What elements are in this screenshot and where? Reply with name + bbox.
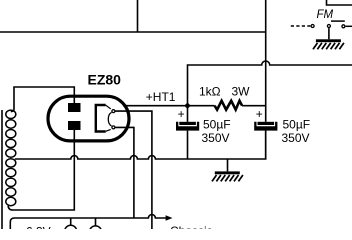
svg-text:1kΩ: 1kΩ (199, 85, 221, 99)
tube U1 EZ80 envelope (48, 96, 129, 141)
ground FM bar (316, 39, 341, 42)
wire 6.3V heater line with hop (10, 215, 166, 229)
resistor R1 leads (188, 105, 266, 107)
wire HT2 rail with hop (188, 61, 352, 106)
svg-text:350V: 350V (282, 131, 310, 145)
capacitor C2 negative tray (254, 122, 277, 131)
lamp terminal circle 1 (65, 225, 77, 237)
wire stub top-left (137, 0, 139, 32)
ground FM hatching (313, 43, 344, 49)
ground FM stub (328, 28, 330, 39)
capacitor C1 negative tray (176, 122, 199, 131)
ground main stub (227, 159, 229, 171)
svg-text:+: + (256, 107, 263, 121)
ground main hatching (212, 175, 243, 181)
wire top right corner (327, 0, 352, 5)
FM switch contact 1 (311, 25, 314, 28)
wire HT vertical bus (265, 0, 267, 122)
heater pin circle bottom (112, 126, 115, 129)
wire anode A2 to transformer bottom (8, 130, 74, 210)
svg-text:50µF: 50µF (203, 117, 231, 131)
heater pin circle top (112, 110, 115, 113)
capacitor C1 positive plate (179, 122, 196, 125)
FM switch contact 3 (342, 25, 345, 28)
cathode stub top (106, 105, 111, 109)
ground main bar (215, 171, 240, 174)
lamp terminal stub 1 (70, 218, 72, 225)
svg-text:+: + (178, 107, 185, 121)
heater filament arc (108, 112, 111, 126)
anode plate A2 (68, 121, 81, 130)
wire heater top pin down right side (115, 111, 152, 229)
cathode sleeve bracket (96, 105, 106, 132)
svg-text:50µF: 50µF (283, 117, 311, 131)
FM switch blade (331, 20, 345, 22)
transformer core line (1, 110, 3, 229)
arrow to heaters (166, 215, 173, 220)
lamp terminal circle 2 (89, 226, 101, 238)
capacitor C2 lead bottom (265, 131, 267, 159)
cathode stub bottom (106, 129, 111, 131)
svg-text:6.3V: 6.3V (26, 225, 51, 230)
svg-text:350V: 350V (202, 131, 230, 145)
wire bottom rail with hops (15, 131, 266, 159)
wire top HV rail (0, 31, 266, 33)
svg-text:+HT1: +HT1 (146, 90, 176, 104)
svg-text:FM: FM (317, 9, 334, 21)
wire anode A1 to transformer top (11, 87, 75, 112)
svg-text:3W: 3W (232, 85, 251, 99)
FM switch contact 2 (327, 25, 330, 28)
node junction +HT1 (185, 103, 190, 108)
svg-text:Chassis: Chassis (170, 224, 213, 229)
lamp terminal stub 2 (95, 218, 97, 226)
anode plate A1 (68, 103, 81, 112)
capacitor C1 leads (187, 106, 189, 159)
FM switch dashed wire (291, 25, 311, 27)
transformer secondary winding (6, 110, 16, 206)
capacitor C2 positive plate (258, 122, 275, 125)
svg-text:EZ80: EZ80 (88, 72, 122, 88)
wire +HT1 from cathode (123, 105, 188, 107)
resistor R1 zigzag (215, 101, 243, 110)
wire heater bottom pin (115, 127, 134, 218)
wire from contact 3 to edge (346, 25, 352, 27)
